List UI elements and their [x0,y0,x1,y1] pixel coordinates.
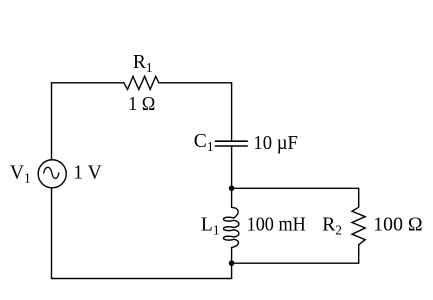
wire top horizontal left (corner to R1) [52,82,124,84]
inductor L1 [224,207,239,247]
svg-text:V1: V1 [10,162,31,185]
svg-text:100 mH: 100 mH [247,215,306,236]
wire top horizontal right (R1 to middle branch) [159,82,232,84]
wire left vertical top (V1 top to top-left corner) [51,83,53,160]
node B (junction dot, bottom of parallel section) [229,260,235,266]
wire left vertical bottom (bottom-left corner to V1 bottom) [51,188,53,279]
svg-text:1 V: 1 V [73,163,101,184]
svg-text:R1: R1 [133,52,153,75]
svg-text:C1: C1 [194,131,214,154]
capacitor C1 [215,141,247,146]
voltage source V1 [38,160,66,188]
wire middle branch (C1 bottom plate to L1 top) [231,146,233,207]
svg-text:1 Ω: 1 Ω [128,94,155,115]
svg-text:L1: L1 [201,214,220,237]
wire bottom horizontal (middle branch to bottom-left corner) [52,278,232,280]
wire parallel top (node A to R2 top) [232,188,359,207]
wire middle branch upper (top wire down to C1 top plate) [231,83,233,141]
svg-text:100 Ω: 100 Ω [373,215,422,236]
svg-text:10 µF: 10 µF [253,133,298,154]
node A (junction dot, top of parallel section) [229,186,235,192]
svg-text:R2: R2 [322,214,342,237]
resistor R2 [352,207,365,245]
resistor R1 [124,76,159,89]
wire parallel bottom (R2 bottom to node B) [232,245,359,264]
wire middle branch lower (L1 bottom to bottom wire) [231,248,233,279]
